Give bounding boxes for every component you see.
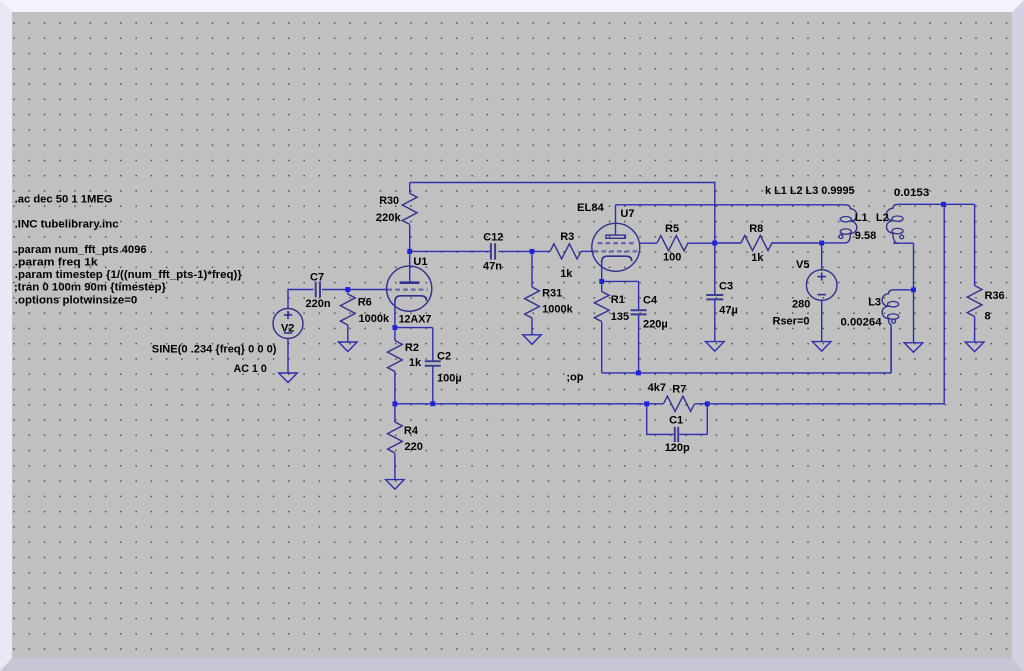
wire cathode node to C4 — [602, 280, 639, 282]
wire R5 right lead — [687, 242, 715, 244]
svg-text:U1: U1 — [413, 256, 427, 268]
svg-text:Rser=0: Rser=0 — [773, 316, 810, 328]
wire L2 bottom drop — [913, 243, 915, 290]
junction L3 top node — [911, 287, 916, 292]
wire B+ top rail — [410, 182, 716, 184]
wire V2 bottom lead — [287, 338, 289, 373]
junction C12-R31 node — [530, 249, 535, 254]
svg-text:4k7: 4k7 — [648, 382, 666, 394]
junction C2 bottom node — [430, 401, 435, 406]
wire R8 left lead — [715, 242, 741, 244]
wire C2 bottom lead — [432, 366, 434, 404]
svg-text:R6: R6 — [358, 296, 372, 308]
svg-text:12AX7: 12AX7 — [399, 314, 432, 326]
svg-text:R4: R4 — [404, 425, 419, 437]
svg-text:47µ: 47µ — [719, 305, 738, 317]
svg-text:1k: 1k — [560, 268, 573, 280]
svg-text:9.58: 9.58 — [855, 230, 876, 242]
wire C3 top lead — [714, 243, 716, 295]
resistor R4 — [388, 422, 403, 453]
capacitor C12 — [490, 243, 492, 259]
wire cathode node to C2 — [395, 327, 433, 329]
triode U1 12AX7 — [387, 266, 432, 311]
wire R31 top lead — [531, 251, 533, 287]
svg-text:220n: 220n — [306, 298, 331, 310]
svg-text:R2: R2 — [405, 342, 419, 354]
wire C4 top lead — [638, 281, 640, 310]
capacitor C3 — [706, 294, 723, 296]
svg-text:C7: C7 — [310, 272, 324, 284]
svg-text:R8: R8 — [749, 223, 763, 235]
junction C4 bottom node — [636, 370, 641, 375]
svg-text:C12: C12 — [483, 232, 503, 244]
wire R6 top lead — [347, 290, 349, 295]
resistor R5 — [657, 236, 688, 251]
window frame bottom bevel — [0, 658, 1024, 671]
capacitor C2 — [425, 360, 441, 362]
svg-text:R3: R3 — [560, 231, 574, 243]
svg-text:280: 280 — [792, 298, 810, 310]
ground secondary — [904, 343, 923, 353]
wire R31 bottom lead — [531, 318, 533, 335]
wire R7 right lead — [695, 403, 708, 405]
window frame left bevel — [0, 0, 12, 671]
wire R3 to U7 grid — [581, 250, 594, 252]
wire right riser — [943, 204, 945, 404]
resistor R6 — [340, 294, 355, 325]
wire R1 bottom lead — [601, 322, 603, 373]
inductor L2 — [887, 204, 899, 243]
wire U7 plate to L1 — [616, 204, 846, 206]
wire U7 screen to R5 — [640, 242, 657, 244]
svg-text:V2: V2 — [281, 322, 294, 334]
inductor L1 — [845, 205, 857, 243]
wire R4 bottom lead — [394, 454, 396, 480]
resistor R31 — [525, 287, 540, 318]
svg-text:.ac dec 50 1 1MEG: .ac dec 50 1 1MEG — [15, 193, 113, 205]
svg-text:AC 1 0: AC 1 0 — [234, 363, 267, 375]
svg-text:EL84: EL84 — [577, 202, 605, 214]
svg-text:.param timestep {1/((num_fft_p: .param timestep {1/((num_fft_pts-1)*freq… — [15, 269, 243, 281]
wire C4 bottom lead — [638, 315, 640, 373]
wire R4 top lead — [394, 404, 396, 422]
junction B+ filter node — [712, 241, 717, 246]
junction V5 node — [819, 241, 824, 246]
resistor R36 — [967, 286, 982, 317]
wire C7 to U1 grid — [322, 289, 387, 291]
inductor L3 — [882, 290, 894, 373]
svg-text:;op: ;op — [566, 371, 583, 383]
junction U1 plate node — [407, 249, 412, 254]
svg-text:R31: R31 — [542, 288, 562, 300]
wire L2 top to R36 rail — [898, 203, 974, 205]
resistor R7 — [664, 396, 695, 411]
wire V5 node to L1 bottom — [822, 242, 846, 244]
svg-text:R36: R36 — [985, 290, 1005, 302]
svg-text:47n: 47n — [483, 260, 502, 272]
wire V5 top lead — [821, 243, 823, 270]
svg-text:U7: U7 — [620, 208, 634, 220]
ground V5 — [812, 342, 831, 352]
svg-text:V5: V5 — [796, 259, 809, 271]
wire C3 bottom lead — [714, 300, 716, 342]
svg-text:L1: L1 — [855, 212, 868, 224]
capacitor C7 — [315, 282, 317, 298]
svg-text:0.0153: 0.0153 — [894, 187, 929, 199]
wire cathode return rail — [602, 372, 891, 374]
wire V5 bottom lead — [821, 301, 823, 342]
wire R30 bottom lead — [409, 225, 411, 252]
ground R31 — [523, 335, 542, 345]
svg-text:R30: R30 — [379, 195, 399, 207]
svg-text:k L1 L2 L3 0.9995: k L1 L2 L3 0.9995 — [765, 185, 855, 197]
resistor R30 — [402, 193, 417, 224]
svg-text:C4: C4 — [643, 295, 658, 307]
wire L3 top lead — [894, 289, 914, 291]
svg-text:.param freq 1k: .param freq 1k — [15, 257, 99, 269]
junction R2 bottom node — [392, 401, 397, 406]
ground R36 — [965, 342, 984, 352]
svg-text:8: 8 — [985, 310, 991, 322]
svg-text:.INC tubelibrary.inc: .INC tubelibrary.inc — [15, 219, 119, 231]
wire bottom rail to right riser — [707, 403, 944, 405]
wire U1 plate lead — [409, 251, 411, 281]
ground R4 — [386, 480, 405, 490]
svg-text:.options plotwinsize=0: .options plotwinsize=0 — [15, 294, 138, 306]
svg-text:220k: 220k — [376, 212, 402, 224]
wire C1 right horizontal — [679, 433, 707, 435]
resistor R8 — [741, 235, 772, 250]
voltage source V5 — [806, 270, 837, 301]
wire U7 cathode lead — [601, 262, 603, 282]
ground C3 — [706, 342, 725, 352]
svg-text:L2: L2 — [876, 212, 889, 224]
junction U7 cathode node — [599, 279, 604, 284]
svg-text:1k: 1k — [751, 252, 764, 264]
junction C7-R6 node — [345, 287, 350, 292]
svg-text:R5: R5 — [665, 223, 679, 235]
svg-text:100: 100 — [663, 252, 681, 264]
wire L3 bottom riser — [890, 328, 892, 373]
resistor R2 — [388, 341, 403, 372]
wire U1 cathode lead — [394, 302, 396, 328]
window frame right bevel — [1012, 0, 1024, 671]
svg-text:135: 135 — [611, 311, 629, 323]
svg-text:1000k: 1000k — [542, 303, 573, 315]
voltage source V2 — [273, 309, 303, 339]
svg-text:L3: L3 — [868, 297, 881, 309]
ground V2 — [279, 373, 298, 383]
wire R2 top lead — [394, 328, 396, 341]
pentode U7 EL84 — [592, 223, 640, 271]
wire node to C12 — [410, 250, 490, 252]
wire C2 top lead — [432, 328, 434, 362]
wire C1 left horizontal — [646, 433, 674, 435]
junction R7 right node — [705, 401, 710, 406]
resistor R1 — [594, 292, 609, 322]
wire B+ vertical drop — [714, 182, 716, 243]
svg-text:100µ: 100µ — [437, 372, 462, 384]
wire secondary ground lead — [913, 290, 915, 343]
svg-text:0.00264: 0.00264 — [841, 316, 883, 328]
svg-text:;tran 0 100m 90m {timestep}: ;tran 0 100m 90m {timestep} — [14, 282, 167, 294]
svg-text:SINE(0 .234 {freq} 0 0 0): SINE(0 .234 {freq} 0 0 0) — [152, 344, 277, 356]
wire R2 bottom lead — [394, 372, 396, 404]
wire R36 bottom lead — [974, 317, 976, 343]
wire V2 to C7 — [288, 289, 313, 291]
svg-text:C1: C1 — [669, 415, 683, 427]
wire L2 bottom jog — [893, 242, 914, 244]
wire R6 bottom lead — [347, 325, 349, 342]
ground R6 — [339, 342, 358, 352]
svg-text:120p: 120p — [665, 442, 690, 454]
svg-text:C3: C3 — [719, 281, 733, 293]
svg-text:220µ: 220µ — [643, 319, 668, 331]
svg-text:1000k: 1000k — [359, 313, 390, 325]
junction feedback tap node — [941, 202, 946, 207]
svg-text:220: 220 — [405, 441, 423, 453]
svg-text:.param num_fft_pts 4096: .param num_fft_pts 4096 — [15, 244, 147, 256]
wire R1 top lead — [601, 281, 603, 291]
capacitor C4 — [631, 309, 647, 311]
junction R7 left node — [644, 401, 649, 406]
wire C1 left branch — [646, 404, 648, 435]
wire R30 top lead — [409, 183, 411, 194]
wire C1 right branch — [706, 404, 708, 435]
svg-text:1k: 1k — [409, 357, 422, 369]
svg-text:R1: R1 — [611, 294, 625, 306]
wire feedback bottom rail — [395, 403, 647, 405]
wire U7 plate lead — [615, 205, 617, 235]
svg-text:R7: R7 — [672, 384, 686, 396]
resistor R3 — [550, 244, 581, 259]
wire C12 to R3 — [498, 250, 550, 252]
wire V2 top lead — [287, 289, 289, 309]
svg-text:C2: C2 — [437, 351, 451, 363]
wire R36 top lead — [974, 204, 976, 285]
junction U1 cathode node — [392, 325, 397, 330]
capacitor C1 — [674, 427, 676, 442]
wire R8 right lead — [771, 242, 822, 244]
wire R7 left lead — [647, 403, 664, 405]
